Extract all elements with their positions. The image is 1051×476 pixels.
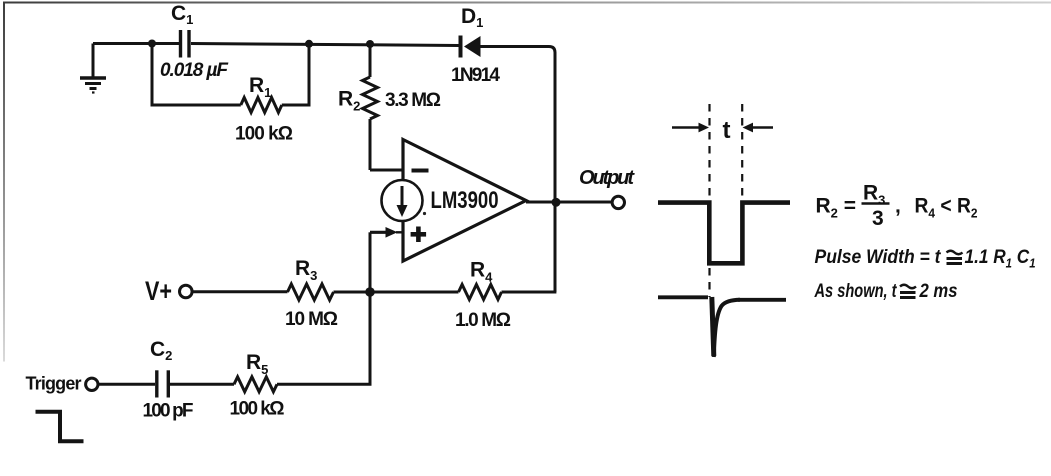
node plus-rail junction [365,287,375,297]
wire R5 to plus rail [277,292,370,384]
resistor R1 [241,98,282,113]
svg-text:,: , [895,195,901,218]
svg-text:V+: V+ [145,276,172,306]
trigger step waveform [36,412,84,442]
resistor R4 [459,285,502,300]
svg-text:Trigger: Trigger [26,374,82,394]
t dimension arrows [672,123,773,133]
formula R2 = R3/3, R4 < R2 [816,182,978,231]
svg-text:t: t [723,117,731,144]
svg-text:As shown, t: As shown, t [814,281,897,302]
svg-text:10 MΩ: 10 MΩ [285,309,338,330]
formula Pulse Width = t ~ 1.1 R1 C1 [815,247,1036,271]
svg-text:100 kΩ: 100 kΩ [235,124,293,145]
svg-text:Output: Output [579,167,635,189]
wire C2 to R5 [169,383,234,386]
trigger spike waveform [658,297,786,357]
svg-text:1.1 R1 C1: 1.1 R1 C1 [965,247,1036,271]
svg-text:0.018 µF: 0.018 µF [160,60,229,81]
svg-text:3.3 MΩ: 3.3 MΩ [385,90,441,111]
svg-text:2 ms: 2 ms [919,281,958,302]
terminal Output [612,196,624,208]
wire R4 to output vertical [502,291,557,294]
wire minus input [370,169,402,172]
svg-text:3: 3 [872,207,884,230]
resistor R2 [363,44,378,170]
node output junction [552,198,561,207]
resistor R5 [234,377,277,392]
wire plus input with arrow [370,227,402,238]
resistor R3 [288,284,334,300]
dashed line right [741,104,743,200]
wire top rail C1 to diode [191,44,459,46]
output pulse waveform [658,203,790,264]
svg-text:1N914: 1N914 [451,65,500,86]
svg-text:100 kΩ: 100 kΩ [230,399,285,420]
dashed line left [708,104,710,297]
wire R1 parallel branch [152,44,241,106]
wire output [526,201,612,204]
wire V+ to R3 [193,290,288,293]
formula As shown t ~ 2 ms [814,281,958,302]
capacitor C1 [181,30,190,58]
node R2 top junction [366,40,374,48]
wire R1 to node B [282,44,309,106]
ground [80,44,106,93]
wire R3 to R4 [334,291,459,294]
svg-text:LM3900: LM3900 [431,187,499,214]
node B (C1 right junction) [305,40,313,48]
node A (C1 left junction) [148,40,156,48]
wire diode to output vertical [481,47,556,293]
svg-text:Pulse Width = t: Pulse Width = t [815,247,942,268]
op-amp U1 LM3900 [382,140,527,262]
svg-text:100 pF: 100 pF [143,401,194,422]
wire Trigger to C2 [98,383,155,386]
capacitor C2 [157,370,169,397]
diode D1 [459,36,481,58]
wire top rail ground to C1 [93,42,179,45]
svg-text:R4 < R2: R4 < R2 [915,195,978,221]
wire plus input vertical [369,232,372,292]
svg-text:1.0 MΩ: 1.0 MΩ [455,310,511,331]
